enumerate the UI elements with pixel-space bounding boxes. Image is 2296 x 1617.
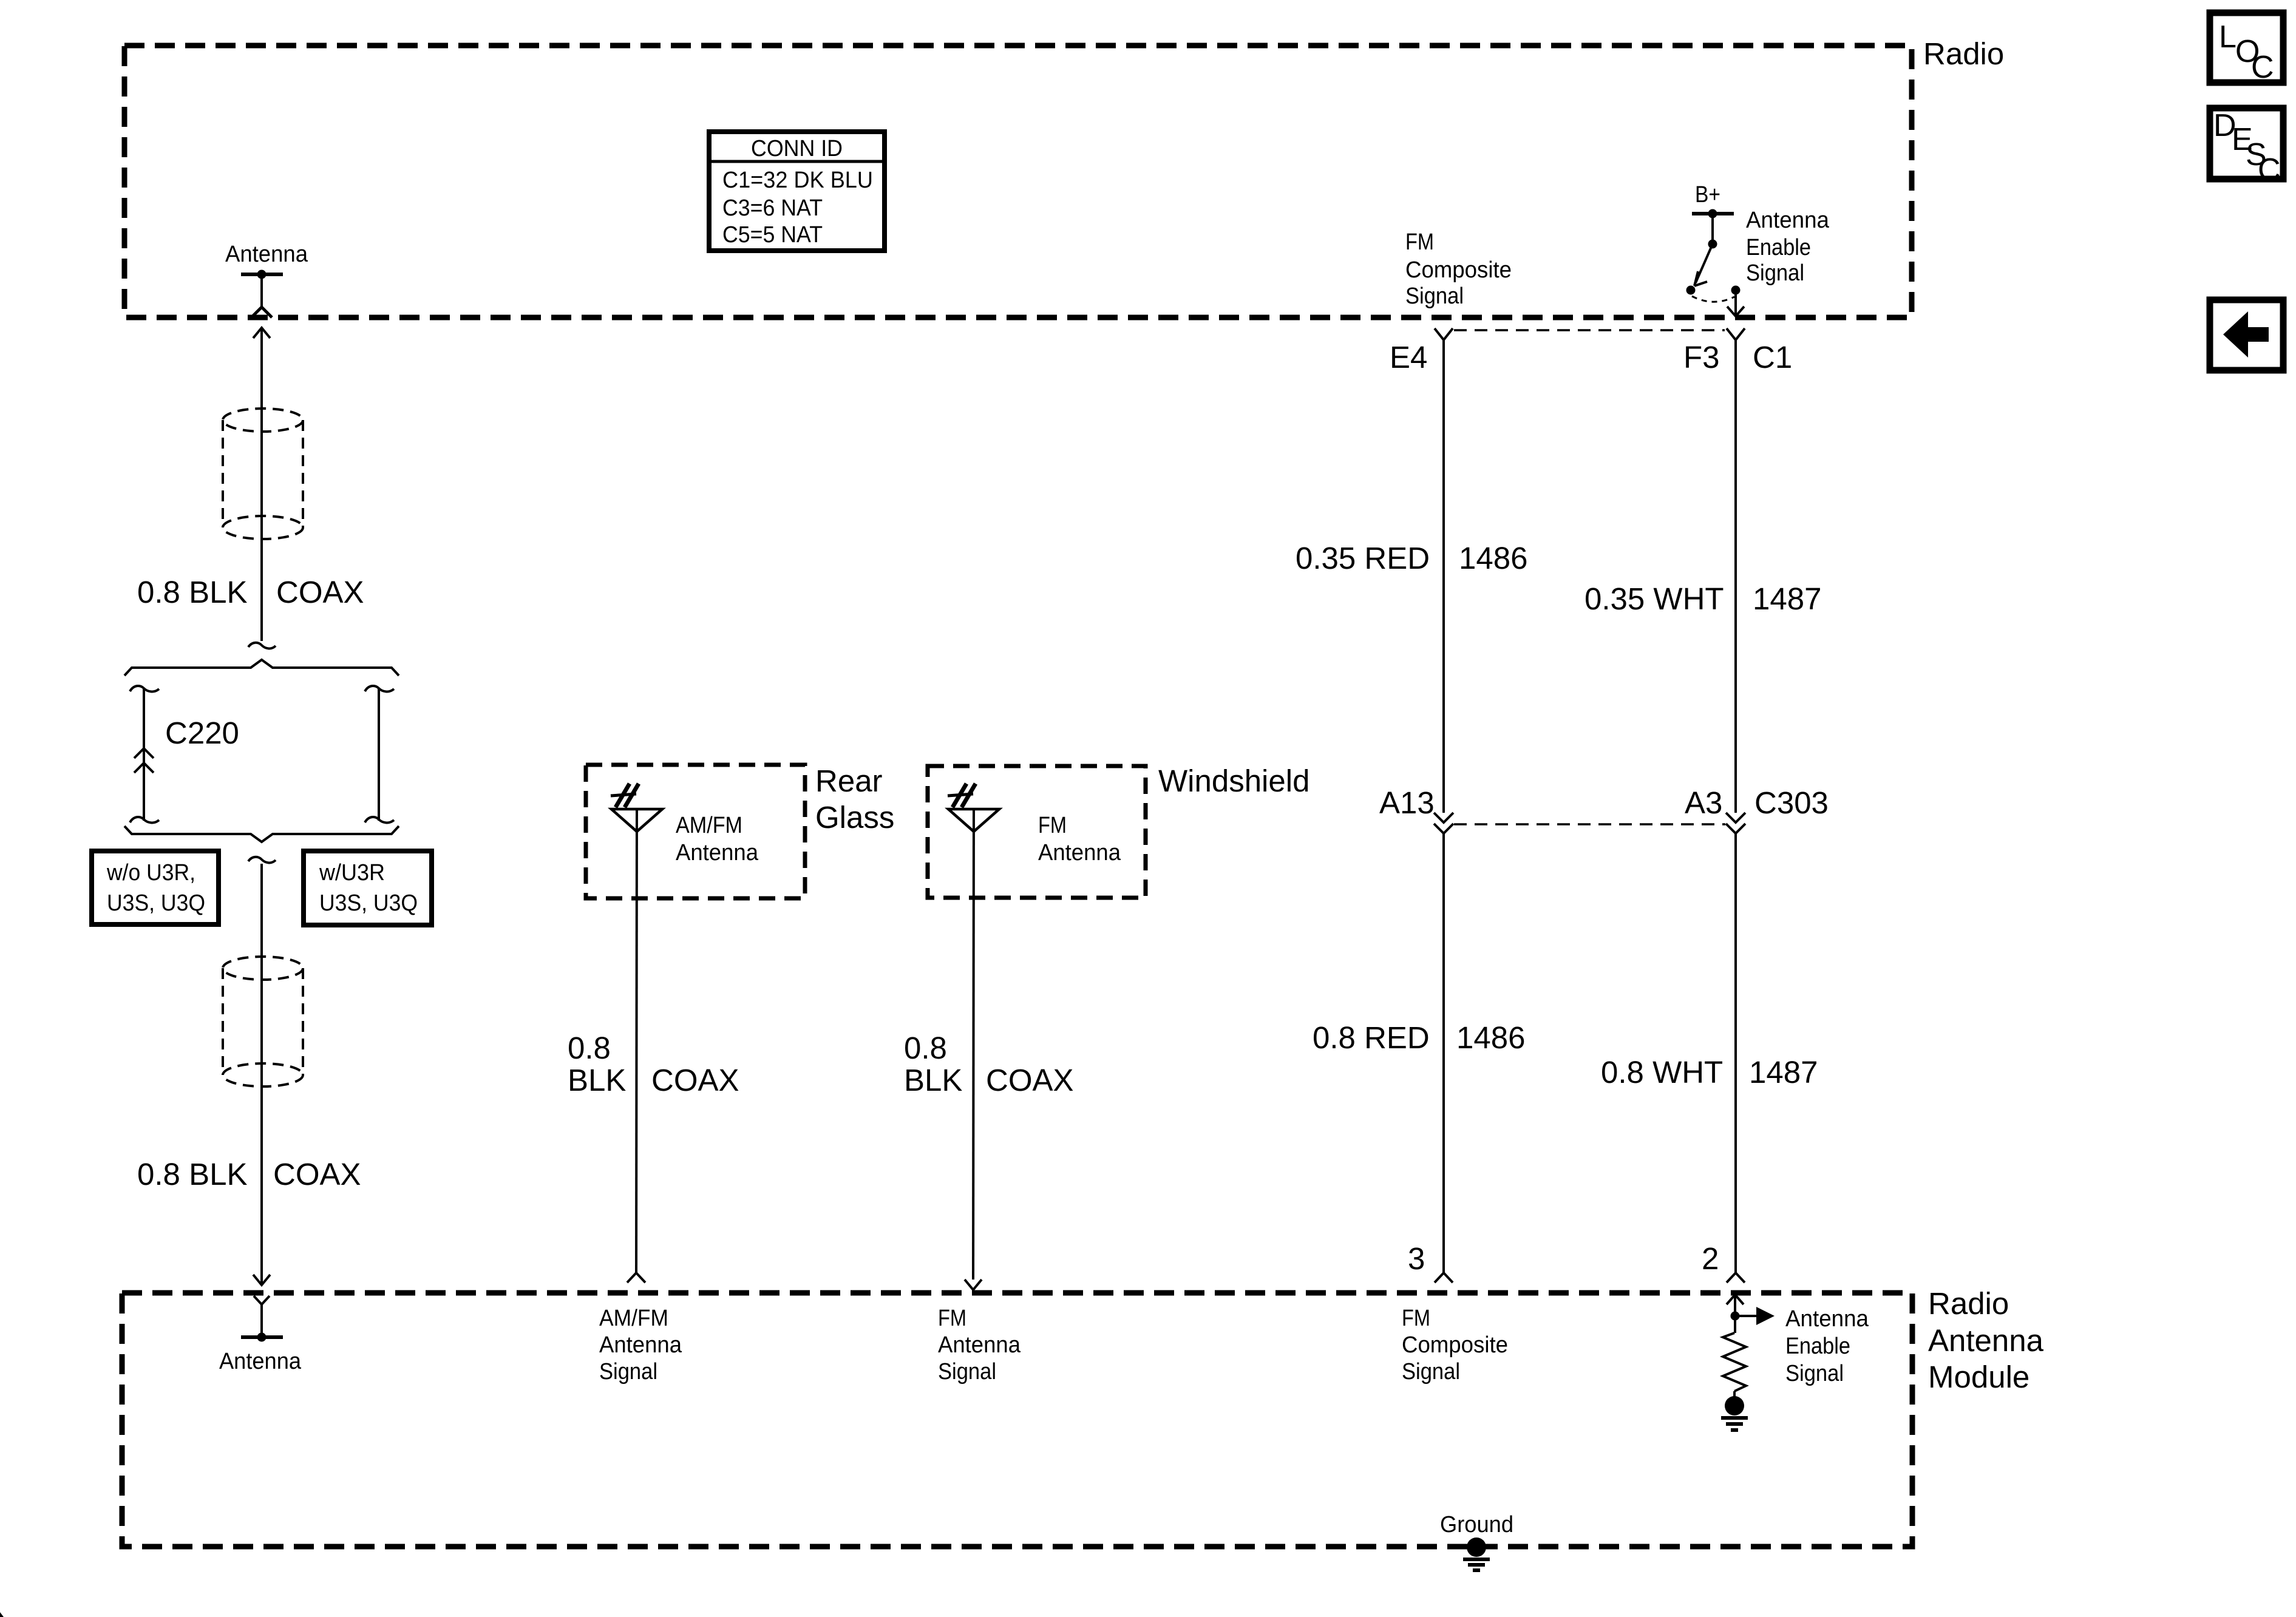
svg-text:C3=6 NAT: C3=6 NAT [722,195,823,221]
svg-text:Antenna: Antenna [1785,1306,1869,1332]
svg-text:FM: FM [1038,813,1067,838]
antenna terminal symbol (Radio side) [241,270,283,318]
DESC legend button [2210,108,2283,188]
svg-text:Signal: Signal [1405,283,1464,309]
svg-text:Module: Module [1928,1360,2029,1394]
svg-text:2: 2 [1702,1241,1719,1276]
svg-text:C303: C303 [1754,785,1829,820]
svg-text:Signal: Signal [1402,1359,1460,1385]
CONN ID connector identification table [709,132,885,251]
svg-text:COAX: COAX [273,1157,361,1192]
svg-text:U3S, U3Q: U3S, U3Q [319,890,418,916]
svg-text:B+: B+ [1695,182,1720,208]
wire value label 0.8 RED 1486 [1313,1020,1525,1055]
svg-text:Composite: Composite [1405,257,1512,283]
svg-text:0.8 WHT: 0.8 WHT [1601,1055,1723,1090]
FM Composite Signal net label (module side) [1402,1306,1508,1385]
svg-text:0.8 BLK: 0.8 BLK [137,575,247,609]
svg-text:w/o U3R,: w/o U3R, [106,860,195,886]
Antenna Enable Signal net label (module side) [1785,1306,1869,1386]
svg-text:0.8 RED: 0.8 RED [1313,1020,1430,1055]
Radio Antenna Module dashed outline box [122,1293,1912,1547]
AM/FM Antenna Signal net label [599,1306,682,1385]
svg-text:0.8 BLK: 0.8 BLK [137,1157,247,1192]
svg-text:FM: FM [938,1306,966,1331]
resistor R1 [1723,1333,1746,1391]
svg-text:Signal: Signal [938,1359,996,1385]
wire value label 0.8 BLK COAX (rear glass coax) [568,1031,739,1097]
svg-text:w/U3R: w/U3R [319,860,385,886]
svg-text:1487: 1487 [1749,1055,1818,1090]
FM glass antenna element symbol [948,784,999,832]
FM Antenna Signal net label [938,1306,1021,1385]
svg-text:C220: C220 [165,716,239,750]
Antenna Enable Signal net label (Radio side) [1746,208,1830,286]
svg-text:Radio: Radio [1928,1286,2009,1321]
ground (module internal) [1721,1396,1748,1430]
wire 1486 lower segment (A13 to pin 3) [1435,833,1453,1283]
svg-text:BLK: BLK [568,1063,626,1097]
wire: FM antenna signal coax down to module (arrow down) [965,809,982,1290]
coax splice hook at C220 bottom [248,857,276,863]
svg-text:FM: FM [1405,229,1434,255]
option box w/U3R U3S, U3Q [304,851,432,925]
connector C1 dashed body line [1454,329,1725,331]
pin A3 mating chevrons [1726,813,1745,833]
wire value label 0.35 RED 1486 [1296,541,1527,575]
svg-text:Windshield: Windshield [1158,764,1309,798]
svg-text:BLK: BLK [904,1063,962,1097]
svg-text:Signal: Signal [599,1359,657,1385]
svg-text:FM: FM [1402,1306,1430,1331]
FM Composite Signal net label (Radio side) [1405,229,1512,309]
ground (module case) [1463,1537,1490,1570]
svg-text:L: L [2219,19,2237,55]
switch S (antenna enable) blade [1694,240,1717,286]
svg-text:Rear: Rear [815,764,883,798]
FM antenna name label [1038,813,1121,866]
wire 1486 upper segment (E4 to A13) [1442,340,1445,813]
svg-text:Enable: Enable [1785,1334,1850,1359]
LOC legend button [2210,13,2283,85]
wire value label 0.8 WHT 1487 [1601,1055,1818,1090]
svg-text:Composite: Composite [1402,1332,1508,1358]
wire: switch output to pin F3 (arrow down) [1727,290,1744,316]
svg-text:Antenna: Antenna [676,840,759,866]
coax splice hook at C220 top [248,643,276,649]
connector C303 dashed body line [1454,823,1725,825]
switch contact (right) [1731,286,1741,295]
connector C220 right half [365,686,394,822]
svg-text:Antenna: Antenna [1928,1323,2044,1358]
svg-text:Antenna: Antenna [1038,840,1121,866]
svg-text:C: C [2258,152,2281,188]
coax shield cylinder (upper) [223,408,303,539]
svg-text:COAX: COAX [986,1063,1074,1097]
junction node at resistor top [1731,1312,1740,1321]
svg-text:3: 3 [1408,1241,1425,1276]
antenna terminal symbol (Radio Antenna Module side) [241,1296,283,1342]
svg-text:COAX: COAX [276,575,364,609]
B+ power feed terminal [1692,209,1734,245]
svg-text:C1=32 DK BLU: C1=32 DK BLU [722,168,873,193]
svg-text:Antenna: Antenna [1746,208,1830,233]
wire 1487 lower segment (A3 to pin 2) [1727,833,1745,1283]
svg-text:Ground: Ground [1440,1512,1513,1537]
wire: AM/FM antenna signal coax down to module [627,809,645,1283]
connector C220 mating chevrons [134,748,154,773]
connector C220 bottom brace [124,826,399,842]
wire value label 0.8 BLK COAX (windshield coax) [904,1031,1074,1097]
svg-text:Antenna: Antenna [599,1332,682,1358]
svg-text:A13: A13 [1379,785,1435,820]
pin F3 terminal [1727,328,1745,340]
connector C220 top brace [124,660,399,676]
Rear Glass dashed box [586,765,805,898]
wire: resistor to ground [1733,1391,1736,1397]
Rear Glass location label [815,764,894,835]
wire value label 0.8 BLK COAX (upper) [137,575,364,609]
option box w/o U3R, U3S, U3Q [92,851,219,924]
svg-text:COAX: COAX [651,1063,739,1097]
svg-text:0.8: 0.8 [904,1031,947,1065]
switch travel dashed arc [1692,296,1734,302]
svg-text:Signal: Signal [1785,1361,1844,1386]
svg-text:AM/FM: AM/FM [676,813,742,838]
AM/FM glass antenna element symbol [611,784,662,832]
svg-text:1486: 1486 [1459,541,1527,575]
coax shield cylinder (lower) [223,957,303,1086]
pin E4 terminal [1435,328,1453,340]
svg-text:CONN ID: CONN ID [751,136,843,161]
Windshield dashed box [928,766,1146,898]
svg-text:Radio: Radio [1923,36,2004,71]
Radio component dashed outline box [124,46,1912,317]
back navigation arrow button [2210,300,2283,370]
svg-text:Glass: Glass [815,800,894,835]
svg-text:1486: 1486 [1456,1020,1525,1055]
svg-text:Antenna: Antenna [225,242,308,267]
Radio Antenna Module name label [1928,1286,2044,1394]
page corner mark [0,1612,4,1617]
svg-text:0.35 RED: 0.35 RED [1296,541,1430,575]
wire value label 0.8 BLK COAX (lower) [137,1157,361,1192]
svg-text:0.8: 0.8 [568,1031,611,1065]
svg-text:A3: A3 [1685,785,1722,820]
AM/FM antenna name label [676,813,759,866]
svg-text:U3S, U3Q: U3S, U3Q [107,890,205,916]
svg-text:F3: F3 [1683,340,1720,375]
svg-text:0.35 WHT: 0.35 WHT [1584,581,1724,616]
svg-text:AM/FM: AM/FM [599,1306,668,1331]
wire 1487 upper segment (F3 to A3) [1734,340,1737,813]
wire: pin 2 into module (arrow up) [1727,1295,1744,1333]
wire: antenna coax to Radio Antenna Module (lower segment, arrow down) [253,864,270,1286]
wire value label 0.35 WHT 1487 [1584,581,1821,616]
svg-text:C1: C1 [1753,340,1792,375]
svg-text:Enable: Enable [1746,235,1811,260]
pin A13 mating chevrons [1434,813,1453,833]
svg-text:Signal: Signal [1746,260,1804,286]
svg-text:C: C [2251,50,2274,85]
wire: antenna coax into Radio (upper segment, arrow up) [253,327,270,641]
signal branch arrow (antenna enable out) [1735,1307,1775,1325]
svg-text:Antenna: Antenna [219,1349,302,1374]
svg-text:C5=5 NAT: C5=5 NAT [722,222,823,248]
connector C220 left half [130,686,159,822]
switch contact (left) [1686,286,1696,295]
svg-text:1487: 1487 [1753,581,1821,616]
svg-text:E4: E4 [1390,340,1427,375]
svg-text:Antenna: Antenna [938,1332,1021,1358]
